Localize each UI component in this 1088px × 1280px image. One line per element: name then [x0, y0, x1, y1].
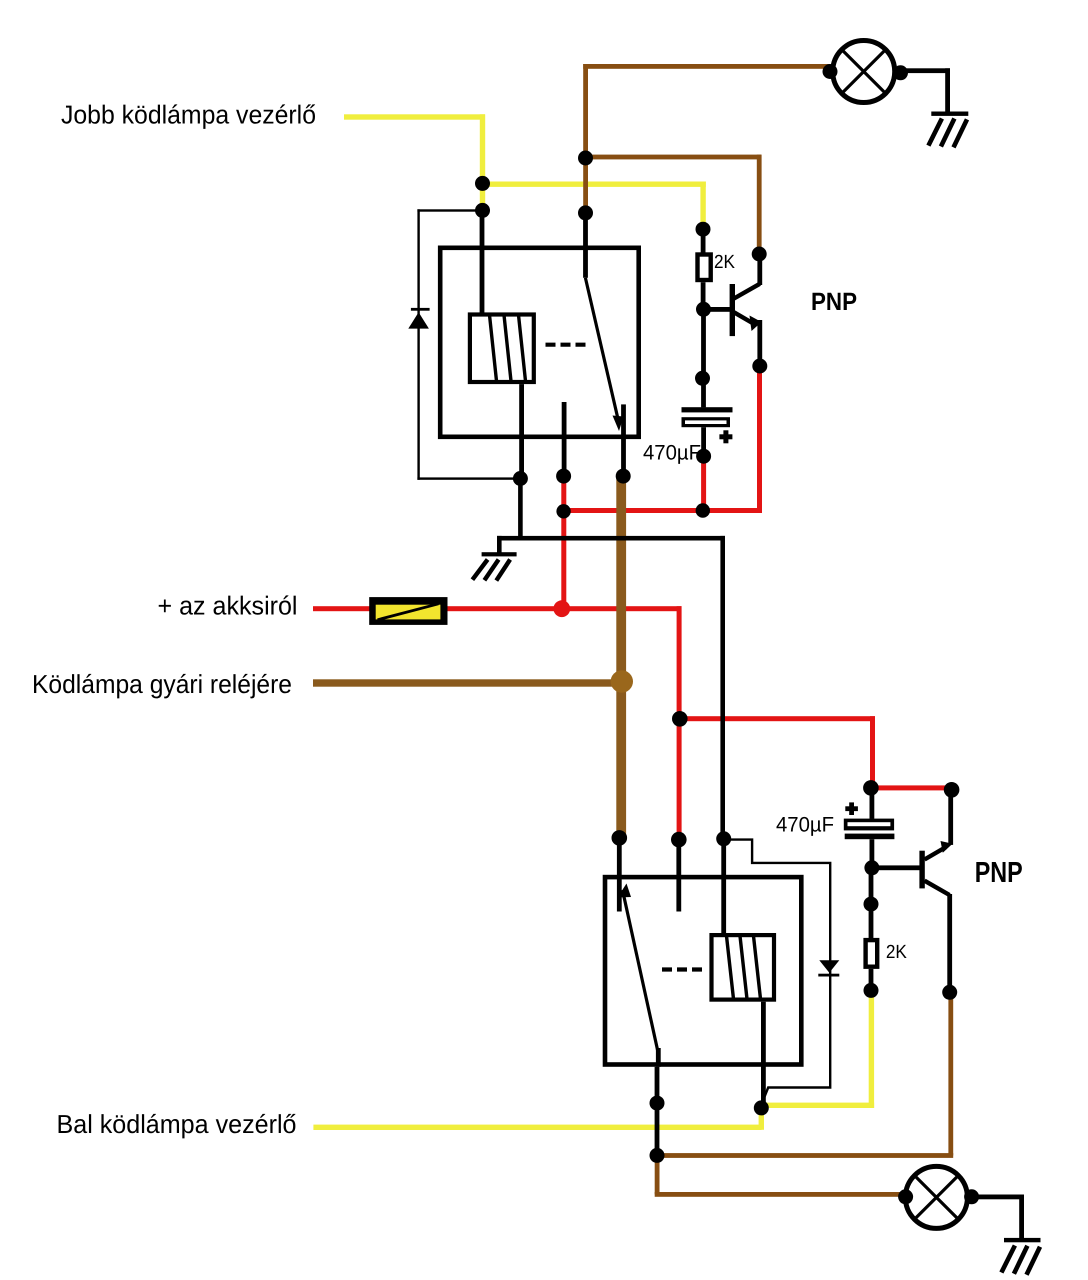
relay U2 link dashes: [662, 967, 702, 971]
wire relay2 common stub from red: [676, 840, 681, 912]
wire thin diode branch bottom: [417, 477, 520, 479]
svg-text:2K: 2K: [886, 942, 907, 963]
wire lamp1 to ground: [901, 68, 951, 73]
wire switch1 pivot stub: [583, 213, 588, 278]
wire brown factory-relay label horizontal: [313, 679, 623, 686]
coil L2 box: [712, 935, 775, 1000]
svg-text:+ az akksiról: + az akksiról: [158, 591, 298, 621]
wire switch2 output vertical: [655, 1067, 660, 1156]
relay U1 link dashes: [546, 343, 586, 347]
wire red vertical up to Q1 emitter: [757, 366, 762, 513]
BLACK-ELEMENTS: [369, 41, 1040, 1275]
wire relay1 common stub: [562, 402, 567, 476]
YELLOW-WIRES: [313, 114, 874, 1130]
wire brown trunk vertical to factory relay junction and relay2: [616, 476, 626, 839]
node R2 bottom: [864, 983, 879, 998]
node C1 bottom: [696, 449, 711, 464]
coil L1 box: [470, 315, 534, 383]
wire yellow left-fog-control horizontal from label: [313, 1125, 761, 1130]
transistor Q1 emitter arrowhead: [750, 316, 762, 332]
ground G1 hatches: [472, 560, 510, 581]
node A yellow junction: [475, 176, 490, 191]
svg-text:470µF: 470µF: [776, 814, 834, 837]
ground G2 hatches: [928, 119, 967, 148]
wire red vertical down right branch to relay2 stub: [677, 606, 682, 839]
wire red horizontal to capacitor C1 branch: [561, 508, 762, 513]
svg-text:Jobb ködlámpa vezérlő: Jobb ködlámpa vezérlő: [61, 100, 316, 130]
wire R2 upper pin: [869, 904, 874, 938]
node brown lamp1 branch: [578, 151, 593, 166]
wire base node down to C1: [701, 309, 706, 407]
wire red vertical C1 bottom to red rail: [701, 456, 706, 513]
transistor Q1 collector diagonal: [734, 284, 760, 299]
wire brown horizontal to lamp2: [655, 1192, 906, 1197]
relay U2 box: [605, 877, 801, 1064]
ground G2 bar: [931, 112, 968, 116]
node relay1 NO bottom: [616, 469, 631, 484]
switch SW1 arm arrowhead: [613, 416, 624, 432]
wire yellow horizontal node A to resistor column: [482, 182, 706, 187]
wire long vertical ground bus to coil2 top: [720, 536, 725, 839]
capacitor C2 plus sign: [845, 806, 858, 811]
ground G1 bar: [482, 552, 517, 556]
fuse F1 element line: [378, 604, 439, 620]
transistor Q2 collector diagonal: [925, 881, 950, 895]
node Q1 emitter bottom: [752, 359, 767, 374]
node Q2 base: [864, 860, 879, 875]
node +12 fuse junction red: [553, 600, 570, 617]
wire yellow vertical down to node A: [480, 114, 485, 188]
switch SW1 arm: [585, 278, 618, 419]
capacitor C1 plate top: [682, 407, 733, 412]
transistor Q2 emitter diagonal: [925, 847, 947, 860]
svg-text:470µF: 470µF: [643, 442, 701, 465]
node red stub top: [671, 832, 687, 848]
wire C2 top pin: [870, 788, 875, 819]
wire red horizontal C2 node to Q2 emitter: [870, 785, 952, 790]
transistor Q1 emitter diagonal: [734, 312, 755, 324]
svg-text:Ködlámpa gyári reléjére: Ködlámpa gyári reléjére: [32, 669, 292, 699]
capacitor C2 plate top outline: [844, 819, 894, 831]
node Q1 base lower: [695, 371, 710, 386]
svg-text:Bal ködlámpa vezérlő: Bal ködlámpa vezérlő: [57, 1109, 297, 1139]
diode D1 cathode bar: [411, 308, 430, 311]
transistor Q1 base bar: [730, 284, 735, 336]
wire brown vertical down to Q1 collector dot: [757, 155, 762, 255]
wire R1 top pin: [701, 229, 706, 253]
transistor Q2 emitter arrowhead: [941, 841, 953, 853]
node coil1 bottom: [513, 471, 528, 486]
wire thin diode D1 vertical: [417, 209, 419, 480]
node Q1 base: [696, 302, 711, 317]
svg-text:2K: 2K: [714, 252, 735, 273]
wire red vertical from +12 junction up to relay1 stub: [561, 476, 566, 609]
lamp LP1 circle: [833, 41, 895, 103]
node Q1 collector top: [752, 247, 767, 262]
wire relay2 NO stub from brown trunk: [617, 838, 622, 912]
wire yellow horizontal coil node to R2 column: [759, 1103, 875, 1108]
wire brown lamp1 feed horizontal: [583, 64, 830, 69]
ground G1 drop: [497, 536, 502, 553]
node B coil1 top: [475, 203, 490, 218]
transistor Q1 emitter vertical: [757, 320, 762, 366]
ground G3 hatches: [1001, 1246, 1040, 1275]
resistor R1: [698, 255, 711, 281]
wire yellow segment between node A and node B: [480, 183, 485, 211]
wire brown horizontal node to Q1 collector: [583, 155, 761, 160]
lamp LP2 circle: [905, 1166, 967, 1228]
wire yellow right-fog-control horizontal from label: [344, 114, 485, 119]
ground G3 bar: [1004, 1238, 1041, 1242]
lamp LP2 terminals: [898, 1189, 913, 1204]
wire thin coil1 diode branch top: [417, 209, 482, 211]
wire lamp2 to ground: [972, 1195, 1022, 1200]
diode D2 cathode bar: [818, 974, 839, 977]
wire switch2 pivot stub: [656, 1048, 661, 1067]
BROWN-WIRES: [313, 64, 953, 1197]
node lamp2 branch: [650, 1148, 665, 1163]
lamp LP2 cross: [915, 1176, 959, 1220]
wire relay1 NO stub to brown trunk: [621, 404, 626, 476]
svg-text:PNP: PNP: [975, 857, 1023, 889]
capacitor C2 plate bottom: [845, 834, 895, 840]
wire coil2 bottom pin: [761, 1002, 766, 1108]
wire coil1 bottom pin: [519, 384, 524, 478]
node C1 red join: [696, 503, 710, 517]
lamp LP1 cross: [842, 50, 886, 94]
node Q2 collector bottom: [942, 985, 957, 1000]
node Q2 emitter top: [944, 782, 960, 798]
node R1 top: [696, 222, 711, 237]
wire thin coil2 diode branch top: [724, 840, 831, 1105]
node coil2 top: [716, 831, 731, 846]
wire R2 bottom pin: [869, 969, 874, 991]
wire brown vertical relay2 output down: [655, 1155, 660, 1194]
switch SW2 arm arrowhead: [618, 884, 632, 898]
node coil2 bottom yellow: [754, 1100, 769, 1115]
wire red vertical down to C2 top node: [870, 716, 875, 790]
wire yellow vertical down to R1 top node: [700, 182, 705, 230]
coil L2 winding lines: [727, 936, 761, 999]
wire yellow vertical up from label line to coil node: [759, 1105, 764, 1130]
relay U1 box: [440, 248, 639, 437]
wire C1 bottom pin: [701, 427, 706, 456]
wire brown vertical lamp1 feed down to node: [583, 64, 588, 160]
capacitor C1 plus sign: [719, 434, 732, 439]
RED-WIRES: [313, 366, 952, 840]
transistor Q2 collector vertical: [947, 894, 952, 992]
node red branch split: [672, 711, 688, 727]
node R2 top: [864, 897, 879, 912]
wire coil2 feed vertical: [721, 839, 726, 934]
wire coil1 feed vertical: [480, 211, 485, 313]
transistor Q2 emitter vertical: [948, 790, 953, 845]
wire R1 bottom pin to base node: [701, 282, 706, 309]
fuse F1 body: [369, 597, 447, 625]
node relay1 common bottom: [556, 469, 571, 484]
switch SW2 arm: [623, 890, 659, 1052]
ground G1 riser from coil1 node: [518, 479, 523, 541]
wire R2 top pin: [869, 868, 874, 904]
wire C2 bottom pin to base node: [870, 839, 875, 868]
wire red from fuse to corner at lower branch: [447, 606, 682, 611]
wire red battery feed from label to fuse: [313, 606, 370, 611]
node switch1 pivot: [578, 205, 593, 220]
wire ground bus horizontal: [497, 536, 725, 541]
coil L1 winding lines: [490, 315, 526, 381]
transistor Q2 base wire: [872, 865, 920, 870]
transistor Q1 base wire: [703, 307, 730, 312]
wire brown node to switch pivot segment: [583, 158, 588, 213]
diode D1 triangle: [408, 312, 429, 328]
wire brown vertical Q2 collector down: [948, 992, 953, 1155]
svg-text:PNP: PNP: [811, 288, 857, 316]
node switch2 output: [650, 1096, 665, 1111]
node factory relay brown junction: [611, 670, 633, 692]
node red tee: [556, 504, 570, 518]
transistor Q1 collector vertical: [757, 251, 762, 285]
transistor Q2 base bar: [919, 851, 924, 889]
wire red horizontal lower branch to C2 column: [677, 716, 875, 721]
lamp LP1 terminals: [823, 64, 838, 79]
wire brown horizontal collector line to relay2 output node: [657, 1153, 953, 1158]
diode D2 triangle: [819, 960, 839, 973]
resistor R2: [866, 940, 878, 967]
node C2 top red: [863, 780, 879, 796]
wire yellow vertical up to R2 bottom node: [869, 990, 874, 1108]
node brown trunk bottom: [612, 830, 628, 846]
capacitor C1 plate bottom outline: [682, 417, 731, 427]
